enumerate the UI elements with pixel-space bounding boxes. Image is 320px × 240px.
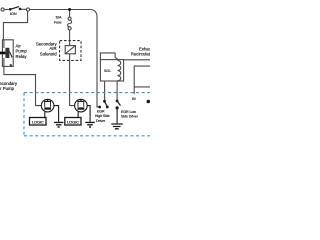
svg-text:5V: 5V [132, 97, 137, 101]
svg-text:High Side: High Side [95, 114, 110, 118]
svg-text:LOGIC: LOGIC [32, 119, 44, 124]
svg-text:LOGIC: LOGIC [67, 119, 79, 124]
svg-text:Relay: Relay [16, 54, 28, 59]
svg-text:Side Driver: Side Driver [121, 115, 139, 119]
svg-text:EGR Low: EGR Low [121, 110, 136, 114]
svg-text:SOL: SOL [104, 69, 111, 73]
svg-text:Pump: Pump [16, 49, 28, 54]
svg-text:Air Pump: Air Pump [0, 86, 15, 91]
svg-text:Fuse: Fuse [54, 20, 62, 24]
svg-text:EGR: EGR [97, 109, 105, 113]
svg-text:Driver: Driver [96, 119, 106, 123]
svg-text:10A: 10A [55, 15, 62, 19]
svg-text:Air: Air [16, 43, 22, 48]
svg-text:Solenoid: Solenoid [40, 51, 57, 56]
svg-text:IGN: IGN [10, 12, 17, 16]
svg-text:Recirculation: Recirculation [131, 51, 150, 56]
